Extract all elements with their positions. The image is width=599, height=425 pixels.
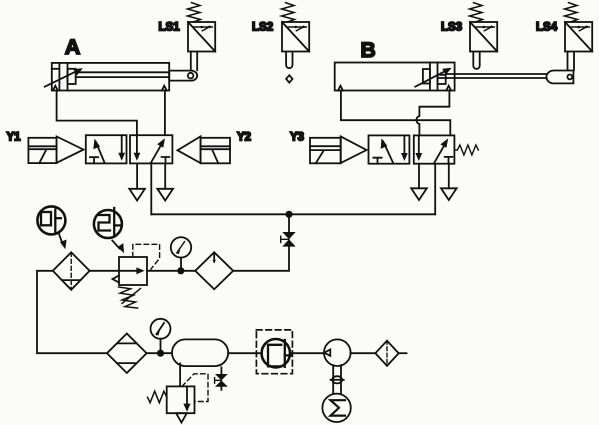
svg-text:Y3: Y3 bbox=[290, 132, 304, 144]
svg-text:LS2: LS2 bbox=[252, 22, 273, 34]
svg-text:LS1: LS1 bbox=[159, 22, 181, 34]
svg-text:B: B bbox=[361, 39, 376, 62]
svg-text:LS3: LS3 bbox=[441, 22, 462, 34]
svg-text:Y2: Y2 bbox=[237, 132, 251, 144]
svg-text:A: A bbox=[65, 35, 81, 59]
svg-text:LS4: LS4 bbox=[536, 22, 558, 34]
svg-text:Y1: Y1 bbox=[7, 132, 22, 144]
